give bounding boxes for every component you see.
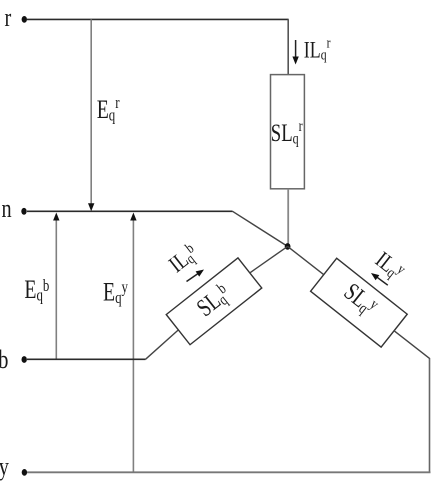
current arrow ILq^y bbox=[369, 270, 388, 285]
wire rail r bbox=[27, 18, 289, 20]
svg-text:b: b bbox=[0, 346, 8, 375]
label Eq^r bbox=[97, 94, 120, 125]
node b terminal dot bbox=[22, 356, 27, 363]
label ILq^y bbox=[371, 247, 410, 285]
label ILq^r bbox=[304, 34, 331, 63]
svg-text:n: n bbox=[2, 194, 12, 223]
wire r drop to SLqr bbox=[287, 19, 289, 75]
current arrow ILq^r bbox=[292, 40, 298, 65]
node b label bbox=[0, 346, 8, 375]
label ILq^b bbox=[164, 239, 203, 277]
wire rail n bbox=[27, 210, 233, 212]
node n label bbox=[2, 194, 12, 223]
svg-text:y: y bbox=[0, 452, 9, 481]
svg-text:SLqr: SLqr bbox=[271, 117, 303, 148]
wire SLqr to junction bbox=[287, 189, 289, 244]
resistor SLq^y bbox=[311, 258, 408, 347]
label Eq^b bbox=[24, 274, 49, 305]
label Eq^y bbox=[103, 277, 128, 308]
node r label bbox=[5, 4, 12, 33]
wire SLqb to junction bbox=[250, 246, 288, 273]
voltage arrow Eq^b bbox=[53, 213, 59, 360]
wire rail b bbox=[27, 358, 146, 360]
wire right edge drop bbox=[429, 359, 431, 473]
wire n diagonal to junction bbox=[233, 211, 288, 246]
voltage arrow Eq^y bbox=[130, 213, 136, 473]
wire junction to SLqy bbox=[288, 246, 324, 274]
wire SLqy to right edge bbox=[394, 331, 430, 359]
current arrow ILq^b bbox=[187, 267, 206, 282]
junction node bbox=[285, 243, 291, 250]
wire b diagonal to SLqb bbox=[146, 330, 179, 360]
voltage arrow Eq^r bbox=[88, 19, 94, 211]
resistor SLq^r bbox=[271, 75, 305, 189]
svg-text:r: r bbox=[5, 4, 12, 33]
node y terminal dot bbox=[22, 469, 27, 476]
wire rail y bbox=[27, 471, 431, 473]
node r terminal dot bbox=[22, 16, 27, 23]
resistor SLq^b bbox=[166, 258, 262, 345]
node n terminal dot bbox=[21, 208, 26, 215]
node y label bbox=[0, 452, 9, 481]
